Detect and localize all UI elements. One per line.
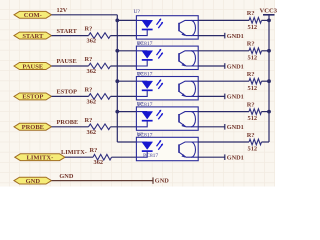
wire resistor to U4 cathode xyxy=(111,126,137,128)
power port GND bottom xyxy=(153,177,169,184)
port ESTOP xyxy=(14,93,52,101)
port PROBE xyxy=(14,123,52,131)
port GND xyxy=(14,177,52,185)
svg-text:LIMITX-: LIMITX- xyxy=(61,149,87,156)
junction on 12V bus row 4 xyxy=(115,110,119,114)
wire bus to U5 anode xyxy=(117,141,136,143)
optocoupler U5 PC817 xyxy=(136,137,198,160)
power port GND1 row 3 xyxy=(225,94,244,101)
wire ESTOP port to resistor xyxy=(52,95,89,97)
wire bus to U4 anode xyxy=(117,111,136,113)
wire resistor to U2 cathode xyxy=(111,65,137,67)
resistor R4 362 xyxy=(89,124,111,130)
junction on 12V bus row 1 xyxy=(115,19,119,23)
wire resistor to VCC3 rail xyxy=(262,80,270,82)
svg-text:PROBE: PROBE xyxy=(22,124,44,131)
wire GND bottom (brown) xyxy=(52,180,154,182)
wire bus to U1 anode xyxy=(117,19,136,21)
wire U4 collector to resistor xyxy=(198,111,249,113)
svg-text:COM-: COM- xyxy=(24,12,42,19)
svg-text:R?: R? xyxy=(90,147,98,154)
svg-text:U?: U? xyxy=(137,71,144,77)
svg-text:R?: R? xyxy=(85,86,93,93)
svg-text:U?: U? xyxy=(134,9,141,15)
optocoupler U4 PC817 xyxy=(136,107,198,130)
svg-text:ESTOP: ESTOP xyxy=(57,89,78,96)
resistor R9 512 xyxy=(249,109,262,115)
wire U1 collector to resistor xyxy=(198,19,249,21)
optocoupler U1 PC817 xyxy=(136,16,198,39)
wire bus to U3 anode xyxy=(117,80,136,82)
optocoupler U2 PC817 xyxy=(136,46,198,69)
svg-text:362: 362 xyxy=(87,98,97,105)
wire LIMITX- port to resistor xyxy=(65,156,93,158)
svg-text:R?: R? xyxy=(247,71,255,78)
wire PAUSE port to resistor xyxy=(52,65,89,67)
schematic sheet background with grid xyxy=(0,0,275,187)
wire resistor to VCC3 rail xyxy=(262,111,270,113)
svg-text:PROBE: PROBE xyxy=(57,119,79,126)
power port GND1 row 2 xyxy=(225,63,244,70)
junction on 12V bus row 3 xyxy=(115,79,119,83)
wire resistor to U5 cathode xyxy=(112,156,137,158)
svg-text:GND: GND xyxy=(155,178,169,185)
resistor R10 512 xyxy=(249,139,262,145)
wire VCC3 rail xyxy=(268,20,270,142)
svg-text:R?: R? xyxy=(247,101,255,108)
junction on VCC3 rail row 3 xyxy=(267,79,271,83)
port START xyxy=(14,32,52,40)
power port GND1 row 4 xyxy=(225,124,244,131)
power port GND1 row 1 xyxy=(225,33,244,40)
svg-text:362: 362 xyxy=(87,68,97,75)
wire 12V from COM- port xyxy=(52,14,118,16)
svg-text:362: 362 xyxy=(94,159,104,166)
junction on VCC3 rail row 4 xyxy=(267,110,271,114)
junction on VCC3 rail row 2 xyxy=(267,49,271,53)
wire U5 collector to resistor xyxy=(198,141,249,143)
svg-text:512: 512 xyxy=(248,146,258,153)
wire resistor to U3 cathode xyxy=(111,95,137,97)
svg-text:512: 512 xyxy=(248,54,258,61)
svg-text:GND1: GND1 xyxy=(227,94,244,101)
wire U4 emitter stub xyxy=(198,126,225,128)
svg-text:GND1: GND1 xyxy=(227,63,244,70)
optocoupler U3 PC817 xyxy=(136,77,198,100)
svg-text:R?: R? xyxy=(85,56,93,63)
wire resistor to VCC3 rail xyxy=(262,141,270,143)
svg-text:362: 362 xyxy=(87,38,97,45)
resistor R7 512 xyxy=(249,48,262,54)
svg-text:PAUSE: PAUSE xyxy=(57,58,77,65)
svg-text:GND1: GND1 xyxy=(227,124,244,131)
svg-text:ESTOP: ESTOP xyxy=(22,94,43,101)
svg-text:362: 362 xyxy=(87,129,97,136)
wire resistor to VCC3 rail xyxy=(262,50,270,52)
svg-text:R?: R? xyxy=(247,132,255,139)
svg-text:12V: 12V xyxy=(57,7,68,14)
wire U1 emitter stub xyxy=(198,35,225,37)
wire 12V vertical bus xyxy=(116,15,118,142)
svg-text:PC817: PC817 xyxy=(143,153,158,159)
svg-text:GND1: GND1 xyxy=(227,33,244,40)
svg-text:512: 512 xyxy=(248,24,258,31)
svg-text:R?: R? xyxy=(247,10,255,17)
svg-text:U?: U? xyxy=(137,41,144,47)
wire resistor to VCC3 rail xyxy=(262,19,270,21)
resistor R5 362 xyxy=(93,154,112,160)
wire U3 emitter stub xyxy=(198,95,225,97)
port COM- xyxy=(14,11,52,19)
wire U2 emitter stub xyxy=(198,65,225,67)
svg-text:R?: R? xyxy=(85,26,93,33)
svg-text:START: START xyxy=(22,33,44,40)
svg-text:GND: GND xyxy=(26,178,41,185)
svg-text:512: 512 xyxy=(248,85,258,92)
resistor R3 362 xyxy=(89,94,111,100)
port LIMITX- xyxy=(15,154,65,162)
wire U2 collector to resistor xyxy=(198,50,249,52)
svg-text:R?: R? xyxy=(247,41,255,48)
svg-text:PAUSE: PAUSE xyxy=(22,63,43,70)
resistor R8 512 xyxy=(249,78,262,84)
wire U3 collector to resistor xyxy=(198,80,249,82)
svg-text:VCC3: VCC3 xyxy=(260,7,278,14)
wire resistor to U1 cathode xyxy=(111,35,137,37)
wire PROBE port to resistor xyxy=(52,126,89,128)
wire START port to resistor xyxy=(52,35,89,37)
svg-text:U?: U? xyxy=(137,132,144,138)
resistor R1 362 xyxy=(89,33,111,39)
resistor R6 512 xyxy=(249,18,262,24)
svg-text:GND1: GND1 xyxy=(227,155,244,162)
svg-text:START: START xyxy=(57,28,78,35)
junction on VCC3 rail row 1 xyxy=(267,19,271,23)
power port GND1 row 5 xyxy=(225,154,244,161)
wire bus to U2 anode xyxy=(117,50,136,52)
svg-text:GND: GND xyxy=(59,173,73,180)
svg-text:512: 512 xyxy=(248,115,258,122)
svg-text:U?: U? xyxy=(137,102,144,108)
power port VCC3 xyxy=(260,7,278,20)
junction on 12V bus row 2 xyxy=(115,49,119,53)
svg-text:LIMITX-: LIMITX- xyxy=(27,155,54,162)
resistor R2 362 xyxy=(89,63,111,69)
port PAUSE xyxy=(14,63,52,71)
svg-text:R?: R? xyxy=(85,117,93,124)
wire U5 emitter stub xyxy=(198,156,225,158)
